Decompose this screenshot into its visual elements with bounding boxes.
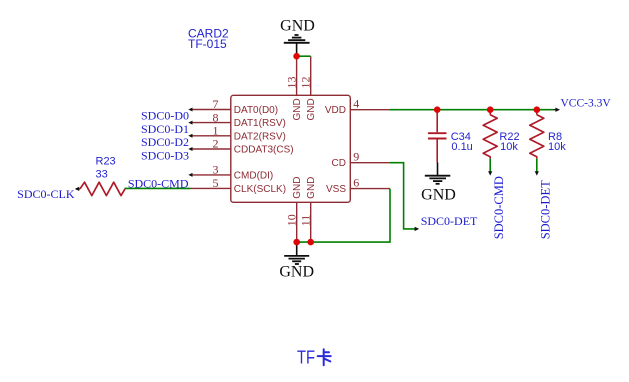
svg-text:13: 13 bbox=[285, 77, 299, 89]
svg-text:8: 8 bbox=[213, 110, 219, 124]
svg-text:10k: 10k bbox=[548, 141, 566, 153]
svg-text:9: 9 bbox=[353, 150, 359, 164]
svg-text:CMD(DI): CMD(DI) bbox=[234, 170, 273, 181]
connector CARD2 TF-015 body bbox=[231, 95, 350, 202]
svg-text:2: 2 bbox=[213, 137, 219, 151]
svg-text:GND: GND bbox=[292, 177, 303, 199]
junction VCC-C34 bbox=[434, 106, 441, 113]
junction VCC-R8 bbox=[534, 106, 541, 113]
junction bottom pin10 bbox=[293, 239, 300, 246]
svg-text:GND: GND bbox=[292, 98, 303, 120]
svg-text:12: 12 bbox=[299, 77, 313, 89]
pin 7 DAT0(D0) bbox=[188, 97, 278, 116]
pin 1 DAT2(RSV) bbox=[188, 124, 286, 143]
svg-text:GND: GND bbox=[306, 177, 317, 199]
svg-text:SDC0-D2: SDC0-D2 bbox=[141, 135, 189, 149]
wire top GND jog bbox=[297, 55, 311, 57]
wire VSS down and to bottom gnd bbox=[297, 189, 390, 243]
svg-text:VCC-3.3V: VCC-3.3V bbox=[561, 97, 612, 109]
svg-text:DAT2(RSV): DAT2(RSV) bbox=[234, 131, 286, 142]
svg-text:GND: GND bbox=[280, 17, 315, 34]
pin 11 GND bottom bbox=[299, 177, 318, 243]
svg-text:TF-015: TF-015 bbox=[188, 37, 227, 51]
wire VCC rail from pin4 bbox=[390, 109, 554, 111]
wire stub R22 to SDC0-CMD bbox=[488, 159, 506, 240]
svg-text:SDC0-D0: SDC0-D0 bbox=[141, 109, 189, 123]
pin 13 GND top bbox=[285, 56, 303, 121]
svg-text:7: 7 bbox=[213, 97, 219, 111]
svg-text:CD: CD bbox=[332, 158, 346, 169]
svg-text:R23: R23 bbox=[96, 156, 116, 168]
svg-text:5: 5 bbox=[213, 176, 219, 190]
svg-text:SDC0-D1: SDC0-D1 bbox=[141, 122, 189, 136]
resistor R23 bbox=[75, 156, 125, 196]
svg-text:SDC0-D3: SDC0-D3 bbox=[141, 148, 189, 162]
svg-text:10k: 10k bbox=[500, 141, 518, 153]
svg-text:CLK(SCLK): CLK(SCLK) bbox=[234, 184, 286, 195]
capacitor C34 bbox=[428, 110, 473, 163]
power flag arrow VCC-3.3V bbox=[554, 97, 612, 112]
svg-text:SDC0-DET: SDC0-DET bbox=[539, 180, 553, 239]
pin 9 CD bbox=[332, 150, 390, 170]
svg-text:SDC0-CMD: SDC0-CMD bbox=[492, 176, 506, 239]
svg-text:0.1u: 0.1u bbox=[451, 141, 472, 153]
svg-text:4: 4 bbox=[353, 97, 359, 111]
pin 2 CDDAT3(CS) bbox=[188, 137, 293, 156]
svg-text:GND: GND bbox=[421, 186, 456, 203]
svg-text:6: 6 bbox=[353, 176, 359, 190]
svg-text:DAT1(RSV): DAT1(RSV) bbox=[234, 118, 286, 129]
ground GND under C34 bbox=[421, 163, 456, 204]
junction VCC-R22 bbox=[487, 106, 494, 113]
pin 8 DAT1(RSV) bbox=[188, 110, 286, 129]
svg-text:CDDAT3(CS): CDDAT3(CS) bbox=[234, 145, 294, 156]
svg-text:TF: TF bbox=[297, 347, 315, 367]
svg-text:DAT0(D0): DAT0(D0) bbox=[234, 105, 278, 116]
svg-text:VSS: VSS bbox=[326, 184, 346, 195]
pin 10 GND bottom bbox=[284, 177, 303, 243]
svg-text:10: 10 bbox=[284, 214, 298, 226]
resistor R22 bbox=[483, 110, 519, 159]
svg-text:SDC0-DET: SDC0-DET bbox=[421, 214, 478, 228]
resistor R8 bbox=[530, 110, 566, 159]
svg-text:GND: GND bbox=[306, 98, 317, 120]
svg-text:11: 11 bbox=[299, 215, 313, 227]
svg-text:GND: GND bbox=[279, 263, 314, 280]
svg-text:33: 33 bbox=[96, 169, 108, 181]
wire stub R8 to SDC0-DET bbox=[535, 159, 553, 240]
wire CD to SDC0-DET bbox=[390, 163, 478, 231]
pin 4 VDD bbox=[325, 97, 390, 117]
pin 6 VSS bbox=[326, 176, 390, 196]
pin 12 GND top bbox=[299, 56, 318, 120]
title TF卡 bbox=[297, 347, 331, 367]
wire CLK from R23 to pin5 bbox=[125, 187, 191, 189]
svg-text:3: 3 bbox=[213, 163, 219, 177]
pin 5 CLK(SCLK) bbox=[191, 176, 287, 195]
svg-text:SDC0-CLK: SDC0-CLK bbox=[17, 187, 75, 201]
ground GND bottom bbox=[279, 242, 314, 280]
junction bottom pin11 bbox=[307, 239, 314, 246]
svg-text:VDD: VDD bbox=[325, 105, 346, 116]
pin 3 CMD(DI) bbox=[188, 163, 273, 182]
svg-text:1: 1 bbox=[213, 124, 219, 138]
junction top bbox=[293, 53, 300, 60]
ground GND top bbox=[280, 17, 315, 56]
